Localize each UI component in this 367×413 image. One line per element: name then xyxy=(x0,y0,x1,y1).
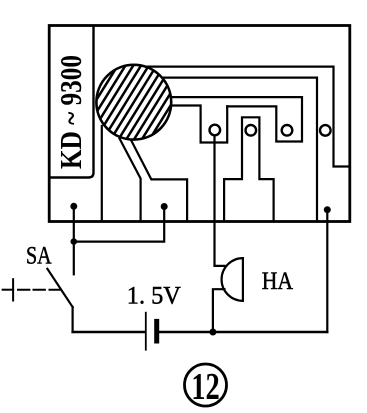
trace L3 from chip hooking around pad P3 xyxy=(160,97,302,141)
terminal dot T3 xyxy=(324,206,331,213)
switch button tick xyxy=(12,279,14,300)
pad P2 xyxy=(246,125,257,136)
speaker bottom lead and wire to rail junction xyxy=(213,289,225,332)
svg-text:1. 5V: 1. 5V xyxy=(127,283,181,310)
terminal dot T1 xyxy=(70,203,77,210)
wire switch to bottom rail xyxy=(71,307,73,332)
junction dot at speaker/rail xyxy=(209,329,216,336)
svg-text:HA: HA xyxy=(262,268,293,295)
speaker HA arc xyxy=(222,258,243,301)
terminal dot T2 xyxy=(161,203,168,210)
battery short thick plate xyxy=(154,321,159,341)
speaker HA flat side xyxy=(242,258,244,301)
trace strip around pad P2 down to bottom foot xyxy=(224,117,274,220)
svg-text:KD ~ 9300: KD ~ 9300 xyxy=(53,55,88,169)
bottom rail left segment to battery xyxy=(73,331,145,333)
diagonal trace left line from chip bottom xyxy=(120,139,141,221)
pad P4 xyxy=(320,125,331,136)
diagonal trace right line from chip bottom xyxy=(132,141,188,221)
label box around KD~9300 xyxy=(50,26,94,178)
figure number circle xyxy=(185,364,227,406)
wire horizontal link and terminal2 stem xyxy=(74,207,164,242)
trace L4 from chip to pad P1 U-shape xyxy=(162,106,227,143)
switch dashed actuator link xyxy=(18,289,61,291)
pad P1 xyxy=(210,125,221,136)
board outline xyxy=(49,26,350,222)
pad P3 xyxy=(282,125,293,136)
wire terminal1 stem down to junction xyxy=(73,206,75,241)
wire junction to switch top contact xyxy=(73,242,75,275)
junction dot at switch branch xyxy=(71,238,78,245)
wire right riser: terminal3 to rail xyxy=(326,210,328,332)
switch SA blade xyxy=(47,269,72,307)
switch button stub xyxy=(3,289,14,291)
svg-text:SA: SA xyxy=(26,242,52,269)
trace from chip bottom-left straight down xyxy=(101,126,103,221)
wire pad1 stem down to speaker top lead xyxy=(215,135,225,266)
trace L1 from chip top to right edge xyxy=(138,67,349,167)
battery long plate xyxy=(145,313,147,350)
trace L2 from chip to pad4 strip left xyxy=(152,78,317,221)
svg-text:12: 12 xyxy=(191,366,220,408)
chip blob hatched circle xyxy=(76,43,191,161)
bottom rail right segment to right riser xyxy=(157,331,327,333)
